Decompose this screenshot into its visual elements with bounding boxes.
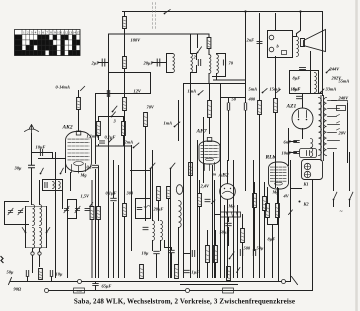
tube pins AF7 <box>205 163 215 171</box>
svg-text:15: 15 <box>76 31 80 35</box>
wire <box>150 169 152 199</box>
switch <box>277 89 281 92</box>
wire <box>145 161 147 221</box>
wire <box>152 151 154 221</box>
crystal <box>144 206 150 208</box>
mains switch pole 1 <box>333 153 335 191</box>
wire <box>131 170 151 172</box>
wire <box>216 74 218 81</box>
svg-text:30µ: 30µ <box>14 166 22 171</box>
trimmer capacitor <box>75 206 80 212</box>
terminal K1a <box>304 163 310 169</box>
voltage selector <box>332 101 348 111</box>
wire <box>302 94 304 109</box>
wire <box>190 73 192 278</box>
wire <box>221 97 246 99</box>
svg-text:8: 8 <box>50 31 52 35</box>
wire <box>267 188 269 204</box>
wire <box>254 183 256 194</box>
svg-text:50µ: 50µ <box>257 246 264 251</box>
wire top B+ rail <box>123 11 323 13</box>
svg-text:2mA: 2mA <box>124 140 134 145</box>
indicator oval <box>176 185 182 195</box>
wire <box>209 84 211 101</box>
capacitor <box>137 207 142 209</box>
wire <box>152 241 154 251</box>
svg-text:AF7: AF7 <box>196 129 207 135</box>
resistor <box>140 265 144 279</box>
capacitor <box>184 270 190 272</box>
dial lamp <box>186 289 190 293</box>
svg-text:400: 400 <box>248 97 256 102</box>
switch <box>46 228 50 234</box>
wire <box>31 169 33 205</box>
wire <box>291 93 323 95</box>
capacitor <box>154 251 160 253</box>
wire <box>158 201 160 221</box>
oscillator coil L-osc2 <box>217 55 219 74</box>
svg-text:6: 6 <box>42 31 44 35</box>
node <box>244 10 246 12</box>
wire <box>70 173 72 191</box>
power transformer primary winding <box>319 98 322 156</box>
wire <box>65 159 67 173</box>
svg-text:0,1µF: 0,1µF <box>105 135 116 140</box>
switch <box>111 112 116 118</box>
tube pins <box>72 164 86 174</box>
tube pin AB2 <box>227 200 229 212</box>
capacitor 50uF <box>253 250 255 256</box>
tube RLb <box>269 162 289 189</box>
wire <box>145 127 147 161</box>
svg-text:0,1: 0,1 <box>87 165 93 170</box>
wire <box>62 191 64 209</box>
svg-text:1mA: 1mA <box>164 121 173 126</box>
node <box>282 280 286 284</box>
wire <box>212 166 214 278</box>
switch <box>197 47 202 54</box>
wire <box>289 141 297 143</box>
resistor <box>39 269 43 280</box>
switch <box>60 168 64 174</box>
grid cap AK2 <box>76 131 81 135</box>
wire <box>98 167 100 207</box>
wire <box>25 207 27 248</box>
resistor (0.3M) <box>206 246 210 263</box>
wire <box>168 199 170 278</box>
wire <box>220 84 222 278</box>
IF transformer T1 secondary <box>191 54 193 73</box>
wire <box>312 180 314 291</box>
svg-text:1µF: 1µF <box>192 270 200 275</box>
capacitor padding <box>198 60 200 66</box>
mains connector block <box>302 160 323 180</box>
svg-text:10µF: 10µF <box>36 145 46 150</box>
grid cap AF7 <box>207 138 212 142</box>
IF coil big <box>179 200 182 227</box>
wire <box>96 93 151 95</box>
wire <box>227 212 229 278</box>
wire <box>31 134 33 165</box>
wire <box>296 34 298 37</box>
svg-text:Mg: Mg <box>228 204 236 209</box>
capacitor <box>205 199 210 201</box>
jack contact b2 <box>269 47 274 52</box>
wire <box>99 116 124 118</box>
svg-text:300: 300 <box>126 191 134 196</box>
wire <box>190 34 192 54</box>
scan streak <box>355 1 358 311</box>
svg-text:T.Gl: T.Gl <box>76 289 82 293</box>
svg-text:10µ: 10µ <box>56 272 63 277</box>
switch <box>174 122 180 127</box>
resistor <box>258 101 262 115</box>
wire <box>242 215 244 229</box>
svg-text:AK2: AK2 <box>62 125 73 131</box>
wire <box>322 12 324 96</box>
resistor (30k) <box>263 197 267 211</box>
svg-text:2,4V: 2,4V <box>200 184 210 189</box>
wire <box>183 84 185 278</box>
resistor (20k) <box>198 194 202 207</box>
oscillator bracket <box>213 54 226 77</box>
filter coil <box>53 182 55 189</box>
wire <box>124 217 126 278</box>
trimmer frame <box>68 200 77 219</box>
switch on top rail <box>164 10 171 15</box>
node <box>78 280 82 284</box>
wire <box>167 53 173 55</box>
wire <box>215 214 221 216</box>
svg-text:4V: 4V <box>283 194 290 199</box>
svg-text:8µF: 8µF <box>293 76 301 81</box>
svg-text:16µF: 16µF <box>291 87 301 92</box>
wire <box>108 153 110 278</box>
switch <box>262 89 268 94</box>
wire <box>290 161 292 281</box>
wire <box>124 69 126 98</box>
resistor (1M) <box>241 229 245 243</box>
svg-text:Mg: Mg <box>80 173 88 178</box>
tuning gang dashed link <box>153 3 156 29</box>
svg-text:5: 5 <box>39 31 41 35</box>
wire <box>150 73 152 94</box>
svg-text:3: 3 <box>31 31 33 35</box>
wire <box>199 181 201 194</box>
resistor (20k) <box>123 57 127 69</box>
oscillator coil L-osc1 <box>208 49 210 55</box>
bus end switch <box>9 278 12 285</box>
svg-text:10µ: 10µ <box>142 251 149 256</box>
wire <box>131 146 133 251</box>
wire <box>197 141 199 278</box>
wire <box>91 181 93 207</box>
wire <box>95 94 97 164</box>
loudspeaker <box>301 30 326 52</box>
svg-text:TA: TA <box>16 52 21 56</box>
wire <box>245 98 247 103</box>
wire <box>228 218 230 222</box>
mains switch pole 2 <box>349 153 351 191</box>
wire <box>118 166 120 278</box>
wire <box>52 153 54 159</box>
svg-text:1: 1 <box>23 31 25 35</box>
wire <box>124 146 126 204</box>
wire <box>347 104 349 163</box>
switch <box>198 91 204 96</box>
svg-text:2µF: 2µF <box>91 61 100 66</box>
trimmer capacitor <box>18 208 23 214</box>
resistor <box>123 98 127 111</box>
wire 2mA <box>96 145 132 147</box>
svg-text:65µF: 65µF <box>102 284 112 289</box>
resistor 500 <box>98 117 100 122</box>
wire <box>278 189 280 281</box>
ground bus <box>11 281 291 283</box>
switch <box>326 69 330 73</box>
capacitor <box>26 271 28 277</box>
resistor oscillator <box>208 34 210 38</box>
wire <box>190 176 192 278</box>
wire <box>191 53 197 55</box>
switch <box>150 163 155 169</box>
filter coil <box>59 182 61 189</box>
svg-text:2nF: 2nF <box>246 38 255 43</box>
svg-text:180V: 180V <box>131 38 142 43</box>
trimmer capacitor <box>64 206 69 212</box>
svg-text:AZ1: AZ1 <box>286 104 297 110</box>
svg-text:2: 2 <box>27 31 29 35</box>
resistor <box>276 204 280 218</box>
wire <box>227 161 229 184</box>
output transformer winding <box>297 37 299 57</box>
input coil L2 <box>40 205 42 226</box>
wire <box>178 228 180 265</box>
capacitor <box>223 60 225 65</box>
svg-text:8µF: 8µF <box>268 237 276 242</box>
wire <box>208 74 210 84</box>
resistor <box>208 101 212 118</box>
wire <box>98 136 100 140</box>
svg-text:0-14mA: 0-14mA <box>56 85 70 90</box>
field coil choke <box>315 73 317 93</box>
input coil L3 <box>33 228 35 249</box>
filter box <box>290 71 319 94</box>
selector contacts <box>337 115 340 131</box>
fuse <box>223 288 234 293</box>
wire <box>166 54 168 73</box>
tube AK2 <box>66 132 92 172</box>
wire <box>203 118 205 183</box>
svg-text:K1: K1 <box>303 182 309 187</box>
resistor <box>227 267 231 281</box>
IF coil <box>161 221 163 241</box>
resistor (50k) <box>214 246 218 263</box>
switch arrow <box>90 203 93 207</box>
svg-text:12V: 12V <box>134 89 142 94</box>
resistor <box>167 187 171 199</box>
switch <box>22 228 26 234</box>
terminal K2 <box>299 201 301 203</box>
svg-text:50µ: 50µ <box>7 270 14 275</box>
band-switch table <box>14 30 80 56</box>
wire <box>124 34 126 57</box>
switch arrow <box>109 139 113 143</box>
switch arrow <box>289 210 293 215</box>
wire <box>181 284 238 286</box>
wire <box>32 256 34 273</box>
resistor R-anode (26k) <box>124 12 126 17</box>
svg-text:K2: K2 <box>303 202 310 207</box>
switch <box>320 89 324 93</box>
input coil L4 <box>40 228 42 249</box>
wire <box>302 129 304 139</box>
resistor <box>157 187 161 201</box>
svg-text:500: 500 <box>244 246 251 251</box>
power transformer core <box>321 96 324 161</box>
svg-text:LW: LW <box>15 46 22 50</box>
capacitor <box>143 227 148 229</box>
resistor (1M) <box>123 117 125 122</box>
svg-text:7: 7 <box>46 31 48 35</box>
contact <box>38 252 41 255</box>
svg-text:33mA: 33mA <box>325 87 337 92</box>
capacitor <box>111 198 117 200</box>
resistor <box>144 113 148 127</box>
resistor <box>78 91 80 98</box>
wire <box>109 72 151 74</box>
fuse T.Gl <box>74 288 85 293</box>
wire <box>259 14 261 101</box>
capacitor <box>45 183 47 188</box>
terminal K1b <box>304 171 310 177</box>
power transformer secondary winding <box>324 98 327 156</box>
svg-text:240V: 240V <box>338 96 350 101</box>
resistor <box>274 99 278 113</box>
svg-text:20V: 20V <box>338 131 347 136</box>
wire <box>297 12 301 34</box>
wire <box>228 98 230 103</box>
capacitor 500 <box>240 250 242 256</box>
IF transformer T1 primary <box>173 54 175 73</box>
resistor <box>123 204 127 217</box>
wire <box>113 161 115 198</box>
capacitor <box>169 250 175 252</box>
wire <box>26 206 47 208</box>
wire <box>237 206 239 278</box>
wire <box>95 170 97 278</box>
suppressor capacitor box <box>300 149 317 158</box>
capacitor 400pF <box>244 103 246 110</box>
wire <box>275 14 277 31</box>
contact <box>45 289 49 293</box>
output jack box <box>268 31 293 58</box>
heater winding <box>311 139 313 157</box>
svg-text:90Ω: 90Ω <box>14 287 22 292</box>
resistor <box>266 204 270 218</box>
wire screen rail 180V <box>109 33 210 35</box>
wire <box>39 181 41 205</box>
svg-text:20µF: 20µF <box>153 207 164 212</box>
node <box>299 10 301 12</box>
wire <box>124 111 126 146</box>
cathode filter frame <box>43 180 63 191</box>
resistor (0.5M) <box>253 194 257 208</box>
wire <box>165 248 172 250</box>
tube AF7 <box>199 141 220 164</box>
wire <box>291 188 302 190</box>
svg-text:20µF: 20µF <box>143 61 154 66</box>
wire <box>156 255 158 278</box>
capacitor <box>107 91 109 97</box>
svg-text:1mA: 1mA <box>188 89 197 94</box>
svg-text:KW: KW <box>14 36 22 40</box>
resistor <box>90 207 94 220</box>
wire <box>224 206 226 278</box>
resistor 15k horizontal <box>221 212 241 217</box>
wire <box>178 101 180 141</box>
dial lamp bus <box>47 290 313 292</box>
wire <box>67 219 69 278</box>
svg-text:0,1µF: 0,1µF <box>106 191 117 196</box>
wire <box>32 249 34 252</box>
capacitor 1uF <box>192 251 194 257</box>
svg-text:MW: MW <box>14 41 22 45</box>
wire <box>245 12 247 98</box>
IF coil <box>153 221 155 241</box>
resistor <box>97 207 101 220</box>
svg-text:Saba, 248 WLK, Wechselstrom, 2: Saba, 248 WLK, Wechselstrom, 2 Vorkreise… <box>74 298 295 306</box>
capacitor 50pF <box>227 103 229 110</box>
svg-text:5mA: 5mA <box>249 87 258 92</box>
svg-text:55mA: 55mA <box>339 79 350 84</box>
input coil L1 <box>33 205 35 226</box>
detector box <box>136 199 151 219</box>
svg-text:4: 4 <box>35 31 37 35</box>
wire <box>55 153 57 278</box>
switch <box>40 168 44 174</box>
contact <box>31 252 34 255</box>
svg-text:1,5V: 1,5V <box>81 194 90 199</box>
svg-text:9: 9 <box>54 31 56 35</box>
switch <box>229 252 235 260</box>
wire <box>233 161 235 278</box>
resistor <box>189 163 193 176</box>
input filter frame <box>5 202 29 225</box>
capacitor <box>93 165 99 167</box>
svg-text:RLb: RLb <box>265 155 276 161</box>
switch arrow <box>237 268 240 273</box>
variable capacitor <box>8 208 13 214</box>
wire <box>268 224 278 226</box>
wire grid cap <box>78 113 80 132</box>
wire <box>197 34 199 48</box>
bus end arrow <box>292 277 298 285</box>
jack contact b1 <box>269 35 274 40</box>
capacitor <box>300 67 306 69</box>
wire <box>264 183 266 197</box>
switch <box>133 143 139 148</box>
capacitor <box>85 208 90 210</box>
wire <box>310 52 312 94</box>
antenna <box>25 125 39 134</box>
tube AB2 <box>220 184 236 200</box>
wire <box>108 34 110 153</box>
wire <box>207 231 209 246</box>
switch arrow <box>212 200 216 204</box>
svg-text:1,1mA: 1,1mA <box>87 134 99 139</box>
tube AZ1 <box>292 108 313 129</box>
